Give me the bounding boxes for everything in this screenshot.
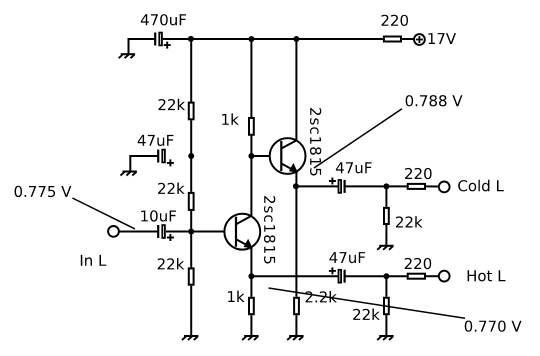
- node dot rail-Q1 collector: [293, 36, 299, 42]
- label 2sc1815 Q2: [264, 196, 275, 263]
- node dot Q2 emitter hot node: [248, 273, 254, 279]
- wire Q1 emitter to cold node: [295, 172, 297, 187]
- wire supply rail into bias 22k: [190, 39, 192, 102]
- resistor R7 22k cold divider: [384, 208, 389, 224]
- ground mid-left: [121, 172, 137, 176]
- label 2sc1815 Q1: [310, 108, 321, 175]
- node dot rail-1k: [248, 36, 254, 42]
- wire Q2 emitter to hot node: [250, 248, 252, 277]
- label 22k bias middle: [158, 183, 185, 194]
- resistor R6 2.2k Q1 emitter: [294, 298, 299, 314]
- wire 2.2k to ground: [295, 315, 297, 336]
- wire bottom 22k to ground: [190, 286, 192, 336]
- wire hot divider node to 22k: [385, 276, 387, 297]
- wire 1k to ground: [250, 315, 252, 336]
- wire 10uF cap to Q2 base: [166, 231, 225, 233]
- wire node C to Q1 base: [251, 155, 269, 157]
- ground under 2.2k: [287, 336, 303, 340]
- transistor Q2 2sc1815 lower: [224, 214, 260, 250]
- label Hot L: [468, 270, 506, 281]
- ground bias column: [182, 336, 198, 340]
- ground hot divider: [377, 336, 393, 340]
- wire top supply rail: [163, 38, 383, 40]
- wire 220 to Cold L jack: [426, 185, 438, 187]
- node dot input / Q2 base: [188, 229, 194, 235]
- resistor R4 1k Q2 collector load: [249, 118, 254, 135]
- label 10uF: [141, 210, 176, 221]
- label 470uF: [141, 14, 186, 25]
- terminal Cold L jack: [439, 182, 450, 193]
- label 1k collector: [222, 113, 239, 124]
- wire mid 22k to bottom 22k through input node: [190, 211, 192, 268]
- transistor Q1 2sc1815 upper: [270, 138, 306, 174]
- node dot cold divider: [383, 183, 389, 189]
- resistor R8 22k hot divider: [384, 298, 389, 314]
- wire supply rail to 1k: [250, 39, 252, 117]
- resistor R9 220 supply: [384, 37, 401, 42]
- wire 47uF to cold divider node: [345, 185, 407, 187]
- capacitor C3 10uF input: [158, 225, 174, 241]
- node dot Q1 emitter cold node: [293, 183, 299, 189]
- annotation line 0.788V to Q1 emitter node: [314, 109, 402, 168]
- resistor R5 1k Q2 emitter: [249, 298, 254, 314]
- ground top-left: [119, 54, 135, 58]
- resistor R11 220 hot output: [408, 274, 425, 279]
- wire 1k to node C and Q2 collector: [250, 136, 252, 216]
- wire supply rail to Q1 collector: [295, 39, 297, 140]
- label 220 cold: [405, 168, 432, 179]
- wire 47uF bias cap to ground corner: [130, 156, 157, 172]
- wire hot node to 47uF: [251, 275, 338, 277]
- wire bias 22k to mid 22k through node B: [190, 120, 192, 192]
- wire supply 220 to 17V symbol: [402, 38, 414, 40]
- wire 22k to cold ground: [385, 225, 387, 246]
- label In L: [81, 255, 107, 266]
- wire cold node down to 2.2k crossing hot rail: [295, 186, 297, 296]
- label 220 hot: [405, 258, 432, 269]
- capacitor C2 47uF bias decoupling: [158, 150, 174, 167]
- capacitor C5 47uF hot output: [329, 267, 345, 282]
- annotation line 0.775V to input wire: [72, 198, 134, 229]
- label 47uF cold: [336, 162, 372, 173]
- label 47uF bias: [138, 135, 174, 146]
- wire 470uF cap to ground corner: [129, 39, 156, 54]
- node dot hot divider: [383, 273, 389, 279]
- label 47uF hot: [329, 252, 365, 263]
- label 22k hot divider: [353, 309, 380, 320]
- label 1k emitter: [228, 291, 245, 302]
- terminal In L jack: [108, 226, 119, 237]
- ground under 1k: [242, 336, 258, 340]
- resistor R2 22k bias middle: [189, 193, 194, 210]
- label 17V: [428, 33, 456, 44]
- capacitor C4 47uF cold output: [329, 178, 345, 193]
- label Cold L: [458, 180, 504, 192]
- node dot Q1 base / Q2 collector: [248, 153, 254, 159]
- power symbol +17V supply: [414, 34, 425, 45]
- wire In jack to 10uF cap: [120, 231, 158, 233]
- resistor R10 220 cold output: [408, 184, 425, 189]
- label 22k cold divider: [396, 216, 423, 227]
- ground cold divider: [377, 246, 393, 250]
- resistor R1 22k bias upper: [189, 103, 194, 120]
- label 0.775 V: [15, 186, 72, 197]
- annotation line 0.770V to Q2 emitter node: [269, 288, 466, 318]
- wire cold divider node to 22k: [385, 186, 387, 207]
- wire hot node to 1k: [250, 276, 252, 297]
- label 0.788 V: [406, 95, 463, 106]
- wire 47uF to hot divider node: [345, 275, 407, 277]
- node dot bias 47uF node: [188, 153, 194, 159]
- label 220 supply: [382, 15, 409, 26]
- wire 220 to Hot L jack: [426, 275, 438, 277]
- label 2.2k: [306, 291, 337, 302]
- terminal Hot L jack: [439, 271, 450, 282]
- capacitor C1 470uF supply: [155, 33, 171, 49]
- resistor R3 22k bias lower: [189, 268, 194, 284]
- label 22k bias upper: [159, 99, 186, 110]
- wire 22k to hot ground: [385, 315, 387, 336]
- label 0.770 V: [465, 321, 522, 332]
- label 22k bias lower: [158, 258, 185, 269]
- wire cold node to 47uF: [296, 185, 338, 187]
- node dot rail-470uF: [188, 36, 194, 42]
